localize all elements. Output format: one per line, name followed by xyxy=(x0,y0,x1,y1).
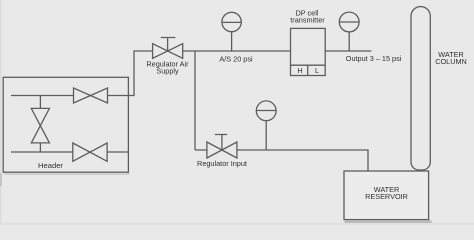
svg-text:COLUMN: COLUMN xyxy=(435,57,467,66)
svg-text:A/S 20 psi: A/S 20 psi xyxy=(219,54,253,63)
svg-text:H: H xyxy=(297,66,302,75)
svg-text:RESERVOIR: RESERVOIR xyxy=(365,192,408,201)
svg-text:Supply: Supply xyxy=(156,67,179,76)
svg-text:Regulator Input: Regulator Input xyxy=(197,159,247,168)
svg-text:transmitter: transmitter xyxy=(290,16,325,25)
svg-text:Header: Header xyxy=(38,161,63,170)
svg-text:Output 3 – 15 psi: Output 3 – 15 psi xyxy=(346,54,402,63)
svg-text:L: L xyxy=(315,66,319,75)
